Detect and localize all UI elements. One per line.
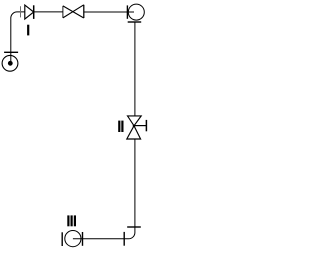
check valve I: triangle and seat bar [25, 5, 34, 19]
wire: pipe between check valve and gate valve [34, 11, 63, 13]
pump III: left flange bar [61, 232, 63, 246]
check valve I: inlet flange bar [20, 6, 22, 17]
label II [118, 121, 123, 132]
pump III: right flange bar [82, 232, 84, 246]
valve II: stem with end bar [134, 120, 146, 131]
flange on bottom pipe before elbow [123, 232, 125, 246]
label III [67, 215, 76, 226]
wire: top pipe from corner into check valve [11, 12, 25, 63]
flange below top-right vessel [128, 21, 142, 23]
wire: pipe between gate valve and top-right vessel [84, 11, 134, 13]
label I [27, 25, 29, 36]
valve II: upper triangle [128, 116, 142, 126]
pump III: circle [65, 231, 81, 247]
flange on left vertical pipe above gauge [4, 51, 18, 53]
top-right vessel circle [128, 4, 144, 20]
wire: right vertical pipe from valve II to bottom elbow [73, 139, 135, 239]
valve II: lower triangle [127, 126, 141, 139]
gauge circle with center dot (source instrument) [2, 55, 18, 71]
gate valve (bowtie) [63, 5, 84, 18]
flange above bottom elbow [127, 226, 141, 228]
wire: right vertical pipe down to valve II [134, 22, 136, 116]
flange before top-right vessel [126, 5, 128, 18]
valve II: center junction dot [133, 125, 136, 128]
